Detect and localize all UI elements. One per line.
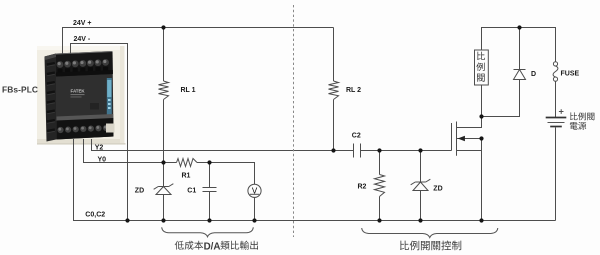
svg-text:R2: R2 (358, 184, 367, 191)
svg-text:RL 2: RL 2 (346, 87, 361, 94)
svg-text:RL 1: RL 1 (181, 87, 196, 94)
svg-text:D/A: D/A (204, 242, 221, 253)
svg-text:Y0: Y0 (98, 156, 107, 163)
svg-text:24V -: 24V - (74, 36, 91, 43)
svg-text:24V +: 24V + (73, 20, 92, 27)
svg-text:FBs-PLC: FBs-PLC (2, 84, 38, 94)
svg-text:FUSE: FUSE (561, 70, 580, 77)
svg-text:Y2: Y2 (95, 144, 104, 151)
svg-text:C0,C2: C0,C2 (85, 212, 105, 219)
svg-text:ZD: ZD (135, 188, 144, 195)
svg-text:C1: C1 (187, 187, 196, 194)
svg-text:R1: R1 (182, 172, 191, 179)
svg-text:D: D (531, 71, 536, 78)
svg-text:C2: C2 (352, 133, 361, 140)
svg-text:FATEK: FATEK (71, 89, 86, 94)
svg-text:ZD: ZD (433, 186, 442, 193)
